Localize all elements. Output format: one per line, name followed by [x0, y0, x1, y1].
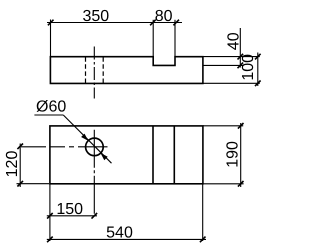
svg-text:540: 540 [106, 224, 133, 241]
svg-text:100: 100 [240, 54, 257, 81]
svg-text:150: 150 [56, 201, 83, 218]
svg-text:40: 40 [225, 32, 242, 50]
svg-text:350: 350 [82, 8, 109, 25]
svg-text:190: 190 [224, 141, 241, 168]
svg-text:Ø60: Ø60 [36, 99, 66, 116]
svg-text:80: 80 [155, 8, 173, 25]
svg-text:120: 120 [4, 151, 21, 178]
